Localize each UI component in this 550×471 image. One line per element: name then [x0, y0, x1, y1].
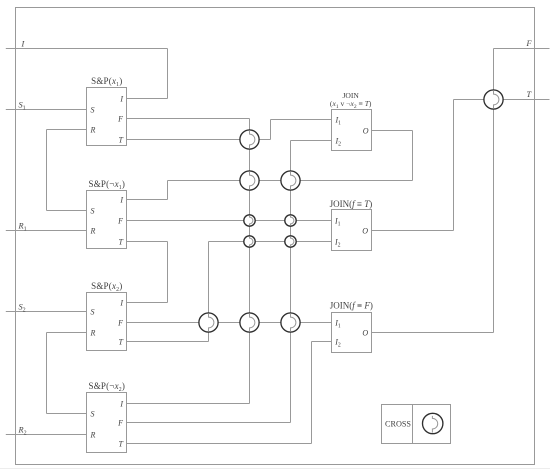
block S&P(-x1) — [87, 179, 127, 248]
block S&P(x1) — [87, 76, 127, 145]
svg-text:S: S — [91, 206, 95, 215]
svg-text:F: F — [117, 114, 123, 123]
wire S&P(not-x1) S pin wire — [47, 210, 87, 212]
wire S&P(x2) T pin wire — [127, 341, 209, 343]
wire JOIN1 O pin wire — [372, 130, 413, 132]
svg-text:S: S — [91, 307, 95, 316]
wire S&P(x1) I pin wire — [127, 98, 168, 100]
svg-text:I1: I1 — [334, 318, 341, 329]
legend CROSS symbol — [423, 413, 443, 433]
wire JOIN1 I2 pin wire — [291, 140, 332, 142]
wire S&P(not-x2) S pin wire — [47, 413, 87, 415]
svg-text:T: T — [119, 237, 124, 246]
cross C9: x1.F column over x2.F wire — [240, 313, 259, 332]
wire JOIN2 O pin wire — [372, 230, 454, 232]
svg-text:JOIN(f ≡ F): JOIN(f ≡ F) — [330, 301, 373, 311]
wire S&P(x2) R pin wire — [47, 332, 87, 334]
wire JOIN3 I2 pin wire — [312, 341, 332, 343]
wire input S2 — [6, 311, 87, 313]
wire JOIN3 O pin wire — [372, 332, 494, 334]
cross C1: x1.F column over x1.T wire — [240, 130, 259, 149]
wire JOIN1.I2 drop to S&P(not-x2).F — [290, 141, 292, 423]
svg-text:T: T — [527, 90, 533, 99]
wire S&P(x2).R to S&P(not-x2).S — [46, 333, 48, 414]
wire S&P(x1).F drop to S&P(not-x2).I — [249, 119, 251, 404]
svg-text:T: T — [119, 439, 124, 448]
wire input S1 — [6, 109, 87, 111]
svg-text:S&P(¬x2): S&P(¬x2) — [88, 381, 125, 393]
wire input R1 — [6, 230, 87, 232]
svg-text:F: F — [117, 418, 123, 427]
wire S&P(x1) F pin wire — [127, 118, 250, 120]
svg-text:R: R — [90, 125, 96, 134]
cross C10: JOIN1.I2 column over x2.F wire — [281, 313, 300, 332]
svg-text:F: F — [117, 318, 123, 327]
cross C8: x2.T riser over x2.F wire — [199, 313, 218, 332]
wire JOIN1 I1 pin wire — [271, 119, 332, 121]
wire S&P(not-x2) I pin wire — [127, 403, 250, 405]
wire S&P(x1).R to S&P(not-x1).S — [46, 130, 48, 211]
svg-text:F: F — [526, 39, 533, 48]
svg-text:S: S — [91, 409, 95, 418]
svg-text:S&P(x1): S&P(x1) — [91, 76, 122, 88]
block S&P(-x2) — [87, 381, 127, 452]
wire S&P(not-x1).F to JOIN2.I1 — [127, 220, 332, 222]
wire JOIN2.O riser to T line — [453, 100, 455, 231]
svg-text:JOIN(f ≡ T): JOIN(f ≡ T) — [330, 199, 373, 209]
svg-text:O: O — [363, 126, 369, 135]
cross C6 (small): x1.F column over node B wire — [244, 236, 255, 247]
cross C11: F riser over T line — [484, 90, 503, 109]
svg-text:T: T — [119, 337, 124, 346]
svg-text:CROSS: CROSS — [385, 419, 411, 428]
svg-text:I: I — [119, 399, 123, 408]
caption separator line — [0, 468, 550, 470]
block JOIN3 (f = F) — [330, 301, 373, 353]
cross C2: x1.F column over node A wire — [240, 171, 259, 190]
svg-text:T: T — [119, 135, 124, 144]
wire node B: S&P(x2).T to JOIN2.I2 — [209, 241, 332, 243]
svg-text:I1: I1 — [335, 115, 342, 126]
svg-text:R2: R2 — [18, 425, 27, 436]
wire S&P(not-x1).T to S&P(x2).I — [167, 242, 169, 303]
legend CROSS box — [382, 405, 451, 444]
svg-text:S2: S2 — [19, 302, 26, 313]
cross C7 (small): JOIN1.I2 column over node B wire — [285, 236, 296, 247]
svg-text:R: R — [90, 328, 96, 337]
wire I line drop to S&P(x1).I — [167, 49, 169, 99]
wire input R2 — [6, 434, 87, 436]
cross C3: JOIN1.I2 column over node A wire — [281, 171, 300, 190]
svg-text:I: I — [119, 94, 123, 103]
wire S&P(x1) R pin wire — [47, 129, 87, 131]
wire S&P(x1).T jog up to JOIN1.I1 — [270, 120, 272, 140]
svg-text:O: O — [362, 328, 368, 337]
svg-text:R1: R1 — [18, 221, 27, 232]
svg-text:I1: I1 — [334, 216, 341, 227]
svg-text:I2: I2 — [334, 237, 341, 248]
svg-text:R: R — [90, 430, 96, 439]
wire S&P(x2) I pin wire — [127, 302, 168, 304]
cross C5 (small): JOIN1.I2 column over not-x1.F wire — [285, 215, 296, 226]
svg-text:F: F — [117, 216, 123, 225]
svg-text:(x1 v ¬x2 ≡ T): (x1 v ¬x2 ≡ T) — [330, 99, 372, 110]
svg-text:I: I — [21, 39, 26, 48]
wire S&P(not-x2).T riser to JOIN3.I2 — [311, 342, 313, 444]
wire S&P(not-x2).T to JOIN3.I2 — [127, 443, 312, 445]
wire node A: S&P(not-x1).I to JOIN1.O — [168, 180, 413, 182]
wire JOIN3.O riser to F line — [493, 49, 495, 333]
svg-text:S1: S1 — [19, 100, 26, 111]
block JOIN1 (x1 or not-x2 = T) — [330, 91, 372, 151]
svg-text:I: I — [119, 298, 123, 307]
wire S&P(x1) T pin wire — [127, 139, 271, 141]
cross C4 (small): x1.F column over not-x1.F wire — [244, 215, 255, 226]
svg-text:I: I — [119, 195, 123, 204]
wire S&P(not-x1) T pin wire — [127, 241, 168, 243]
block S&P(x2) — [87, 281, 127, 350]
svg-text:S&P(¬x1): S&P(¬x1) — [88, 179, 125, 191]
svg-text:R: R — [90, 226, 96, 235]
wire S&P(not-x1) I pin wire — [127, 199, 168, 201]
block JOIN2 (f = T) — [330, 199, 373, 251]
svg-text:I2: I2 — [335, 136, 342, 147]
svg-text:S: S — [91, 105, 95, 114]
wire S&P(x2).T riser — [208, 242, 210, 342]
wire S&P(not-x2).F to JOIN1.I2 — [127, 422, 291, 424]
svg-text:O: O — [362, 226, 368, 235]
wire JOIN1.O drop to node A — [412, 131, 414, 181]
wire output T line — [454, 99, 550, 101]
wire S&P(x2).F to JOIN3.I1 — [127, 322, 332, 324]
wire S&P(not-x1).I riser — [167, 181, 169, 200]
svg-text:S&P(x2): S&P(x2) — [91, 281, 122, 293]
wire output F line — [494, 48, 550, 50]
svg-text:I2: I2 — [334, 337, 341, 348]
wire input I line — [6, 48, 168, 50]
